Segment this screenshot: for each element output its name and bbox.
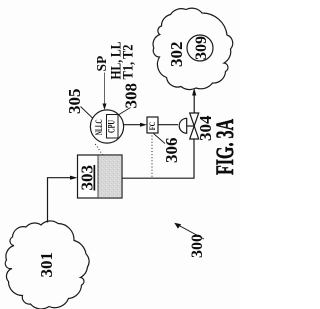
- svg-text:FIG. 3A: FIG. 3A: [212, 119, 239, 175]
- svg-text:FC: FC: [148, 122, 157, 131]
- valve actuator semicircle: [179, 118, 187, 133]
- pipe valve 304 to cloud 302: [193, 94, 195, 113]
- tank 303: [78, 155, 123, 198]
- valve actuator stem: [187, 125, 195, 127]
- valve 304 bowtie bottom triangle: [190, 126, 199, 139]
- svg-text:305: 305: [65, 89, 84, 115]
- tank 303 liquid level line: [97, 156, 99, 198]
- arrowhead into cloud 302: [192, 88, 196, 96]
- cloud 301: [5, 221, 89, 309]
- valve 304 bowtie top triangle: [190, 113, 199, 126]
- arrowhead of 300 leader: [174, 223, 181, 229]
- wire cloud301 to tank 303: [48, 178, 72, 223]
- leader 305: [81, 107, 93, 119]
- svg-text:309: 309: [193, 36, 210, 60]
- controller circle 305: [90, 110, 123, 143]
- dotted wire 305 to tank 303: [95, 144, 103, 156]
- svg-text:303: 303: [78, 165, 97, 191]
- svg-text:CPU: CPU: [106, 120, 116, 133]
- arrowhead into FC: [140, 123, 147, 127]
- svg-text:301: 301: [37, 252, 56, 278]
- circle 309: [187, 35, 213, 61]
- wire FC to valve actuator: [158, 124, 178, 126]
- svg-text:302: 302: [167, 42, 186, 68]
- arrowhead signal into 305: [103, 104, 107, 111]
- svg-text:SP: SP: [94, 56, 109, 72]
- arrowhead into tank 303: [70, 176, 78, 180]
- cloud 302: [153, 8, 233, 89]
- tank 303 liquid shading: [98, 156, 121, 198]
- svg-text:300: 300: [189, 234, 206, 258]
- CPU box: [107, 115, 119, 139]
- signal arrow SP/HL/T to 305: [104, 73, 106, 105]
- svg-text:NLLC: NLLC: [94, 119, 104, 135]
- wire 305 to FC: [124, 124, 142, 126]
- pipe tank 303 to valve 304: [122, 139, 194, 178]
- leader arrow 300: [178, 225, 205, 239]
- FC box 306: [147, 117, 158, 133]
- dotted wire FC to pipe: [151, 136, 153, 178]
- leader 306: [154, 134, 166, 144]
- leader 308: [119, 108, 131, 115]
- svg-text:T1, T2: T1, T2: [120, 45, 136, 80]
- svg-text:308: 308: [122, 83, 141, 109]
- svg-text:306: 306: [162, 138, 181, 164]
